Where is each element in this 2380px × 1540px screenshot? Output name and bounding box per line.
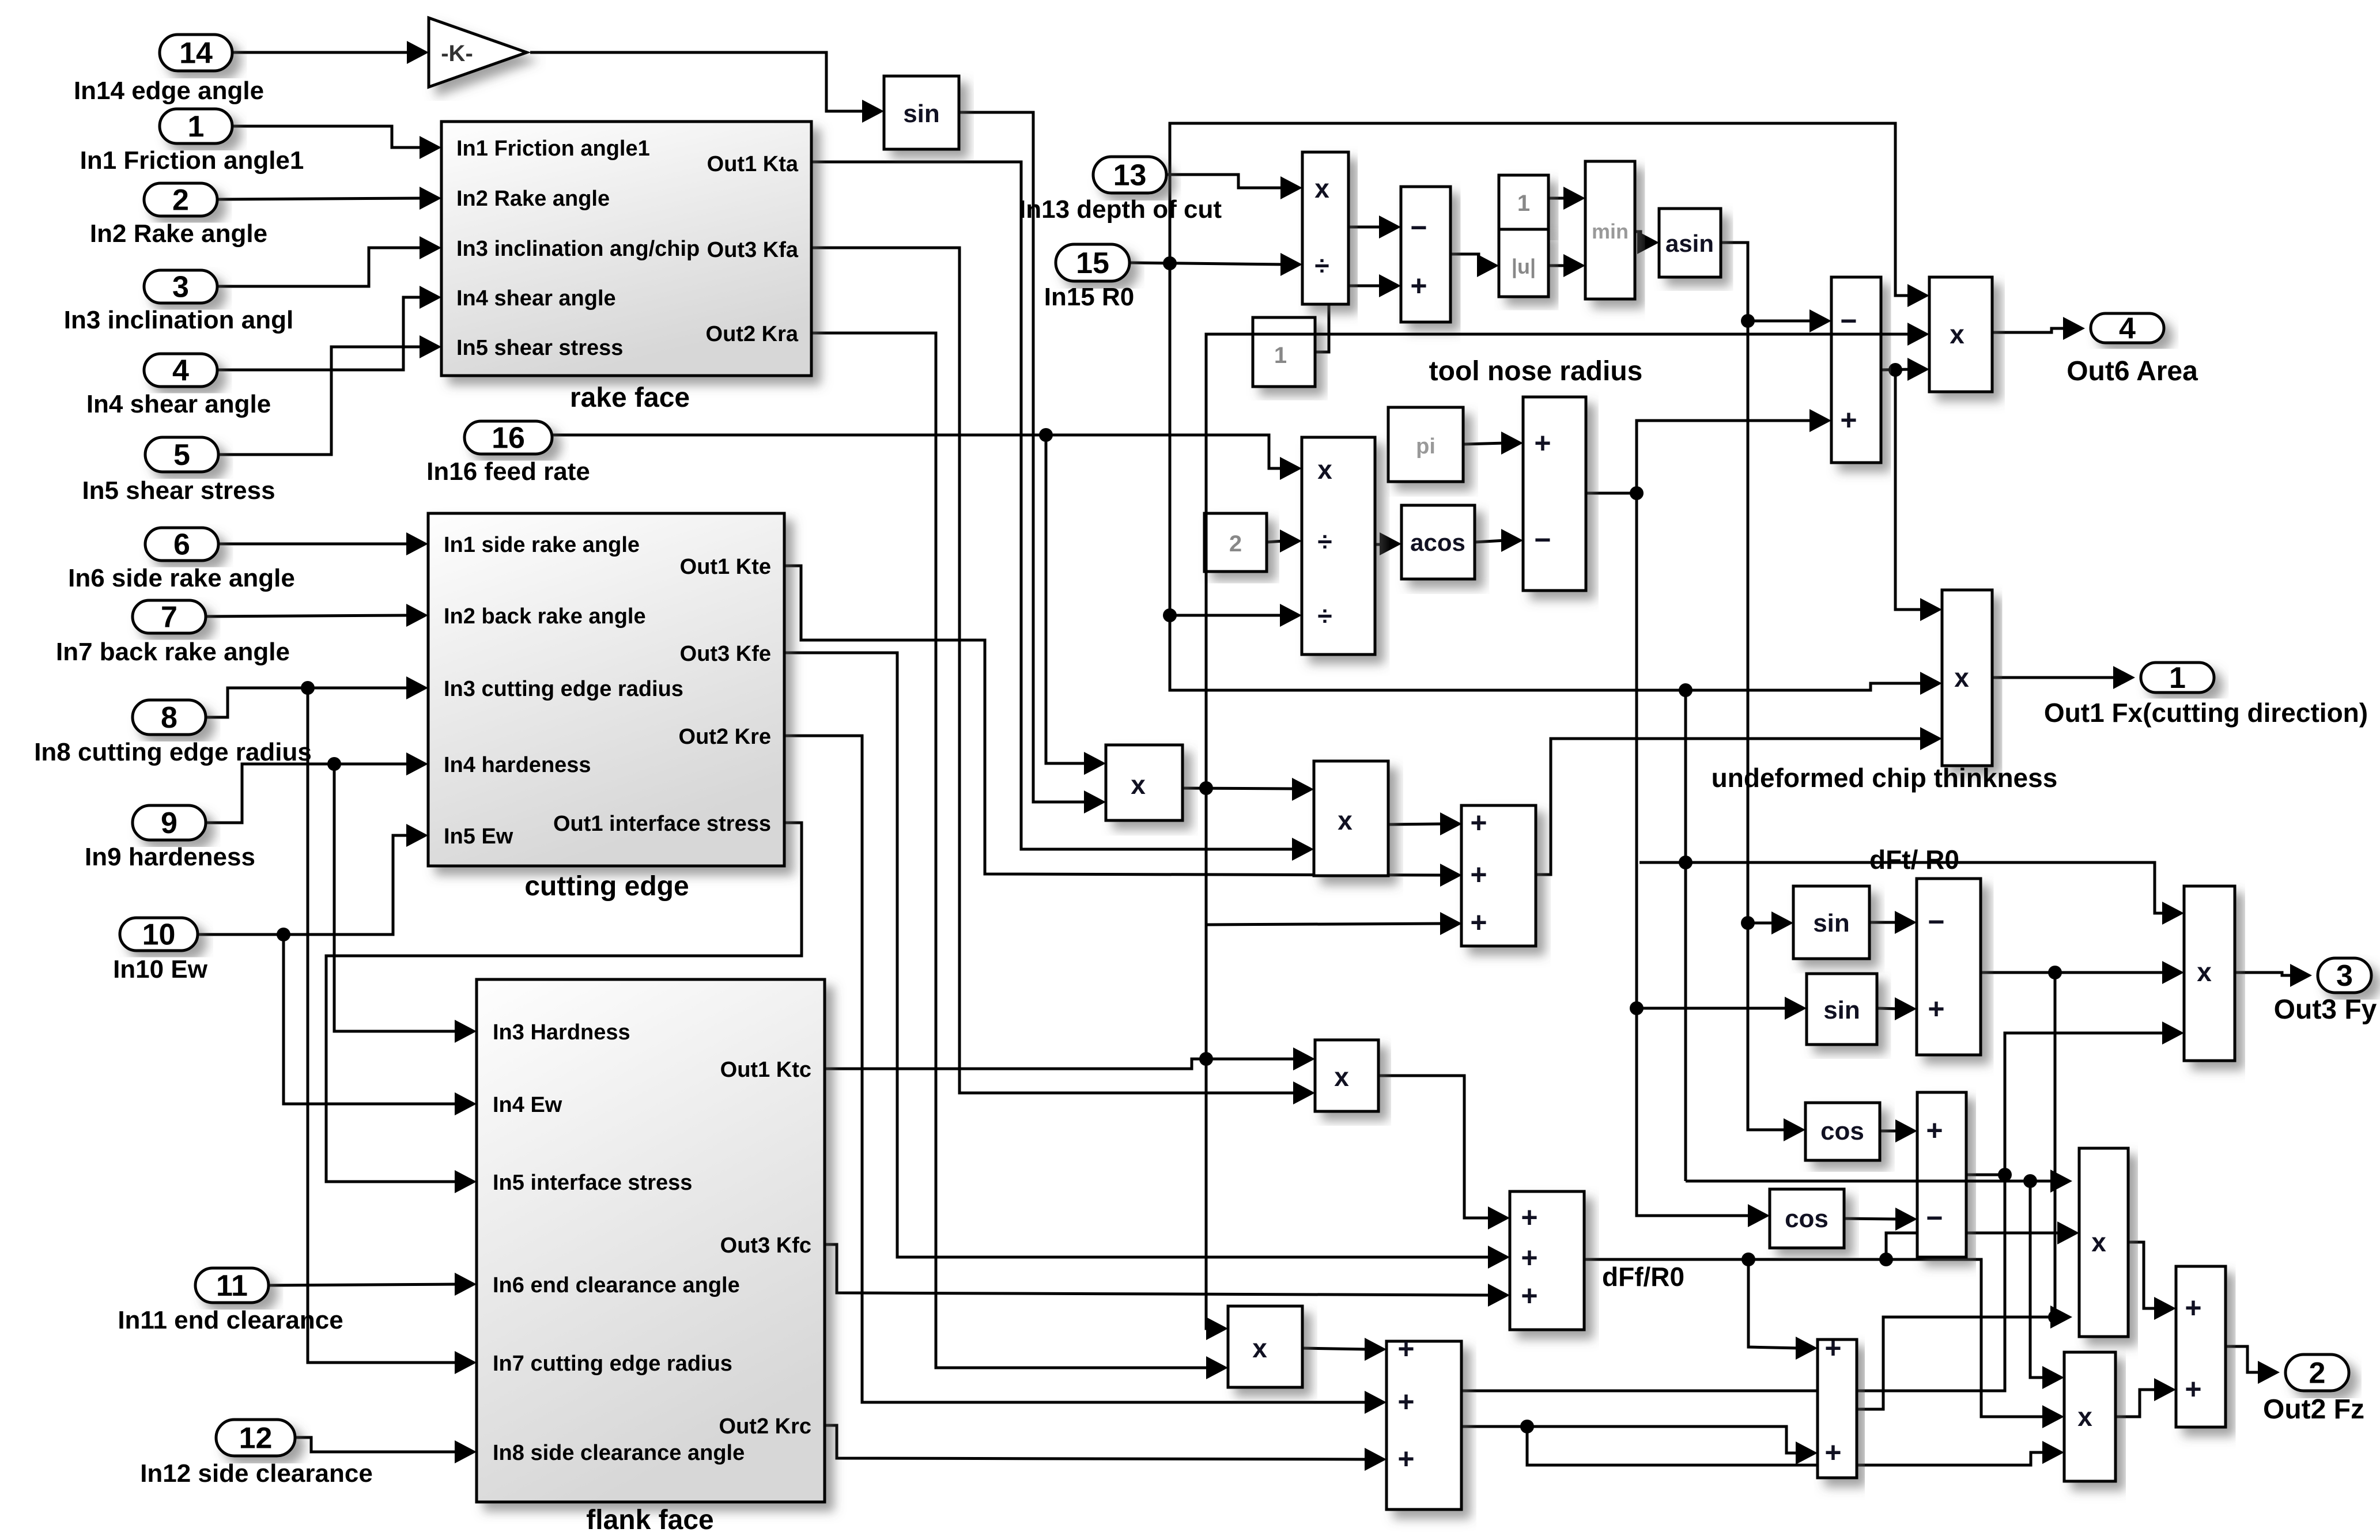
svg-text:x: x — [1131, 770, 1146, 800]
svg-text:3: 3 — [172, 271, 189, 304]
product block prod6 — [2079, 1148, 2128, 1337]
wire product11 to sum10 first input — [1388, 824, 1444, 824]
svg-text:In12 side clearance: In12 side clearance — [140, 1459, 373, 1488]
svg-text:sin: sin — [903, 100, 940, 128]
svg-text:Out1 Ktc: Out1 Ktc — [720, 1058, 811, 1082]
product block prod2 — [1302, 437, 1375, 654]
wire In14 to gain — [232, 51, 410, 54]
wire product8 to sum8 first input — [1378, 1076, 1491, 1218]
wire product9 to sum9 first input — [1302, 1348, 1368, 1349]
svg-text:x: x — [1950, 319, 1965, 349]
svg-text:11: 11 — [216, 1269, 248, 1303]
wire sum9 out to sum7 second input — [1461, 1427, 1799, 1453]
constant 1 lower — [1253, 317, 1315, 387]
svg-text:−: − — [1928, 906, 1944, 938]
svg-text:In1 side rake angle: In1 side rake angle — [444, 533, 640, 557]
svg-text:|u|: |u| — [1512, 255, 1536, 279]
wire cos1 to sum5 plus — [1880, 1130, 1899, 1133]
wire cos2 to sum5 minus — [1844, 1219, 1899, 1219]
trig block sin2 — [1793, 886, 1869, 959]
wire Out3 Kfe to sum8 second input — [784, 653, 1491, 1257]
wire to product6 middle input — [1886, 1233, 2061, 1259]
svg-text:16: 16 — [492, 422, 525, 455]
svg-text:+: + — [1410, 270, 1427, 302]
svg-text:Out2 Kre: Out2 Kre — [679, 725, 771, 749]
wire sum5 output — [1966, 1174, 2005, 1176]
svg-text:x: x — [1252, 1333, 1267, 1363]
wire Out1 Kta to product11 lower input — [811, 162, 1295, 849]
wire In16 feed rate to product2 — [552, 435, 1283, 468]
product block prod5 — [2184, 886, 2235, 1061]
svg-text:cos: cos — [1785, 1205, 1829, 1233]
svg-text:In7 back rake angle: In7 back rake angle — [56, 638, 290, 666]
svg-text:+: + — [1926, 1114, 1943, 1147]
product block prod3 — [1929, 277, 1992, 392]
wire sum10 out up to product4 bottom input — [1536, 739, 1924, 875]
svg-text:15: 15 — [1076, 247, 1109, 280]
junction asin line branch — [1741, 314, 1755, 328]
wire down to cos2 — [1637, 493, 1751, 1216]
svg-text:Out1 Kte: Out1 Kte — [680, 555, 771, 579]
svg-text:1: 1 — [2169, 661, 2186, 695]
wire In15 R0 to product1 — [1129, 263, 1284, 264]
svg-text:cutting edge: cutting edge — [524, 871, 689, 902]
svg-text:dFf/R0: dFf/R0 — [1602, 1262, 1684, 1292]
wire sin3 to sum4 plus — [1877, 1008, 1898, 1009]
sum block sum9 — [1387, 1333, 1461, 1509]
svg-text:Out2 Fz: Out2 Fz — [2263, 1394, 2364, 1425]
wire In6 to cutting edge — [218, 543, 410, 546]
wire sum3 out down to product4 top input — [1895, 370, 1924, 610]
inport 3 — [144, 270, 217, 303]
svg-text:acos: acos — [1410, 529, 1465, 556]
wire Out1 Ktc joins vertical — [825, 1059, 1206, 1069]
svg-text:x: x — [1338, 805, 1353, 835]
wire In5 to rake face — [218, 347, 423, 455]
svg-text:In3 inclination ang/chip: In3 inclination ang/chip — [456, 237, 700, 261]
product block prod1 — [1302, 152, 1348, 304]
wire sum3 to product3 bottom input — [1881, 369, 1911, 370]
svg-text:x: x — [2091, 1227, 2106, 1257]
svg-text:Out3 Kfc: Out3 Kfc — [720, 1233, 811, 1258]
inport 6 — [145, 528, 218, 561]
outport 3 — [2318, 958, 2371, 993]
gain -K- — [429, 18, 527, 87]
svg-text:+: + — [1534, 427, 1551, 459]
svg-text:+: + — [1470, 906, 1487, 939]
min block — [1585, 161, 1635, 299]
subsystem rake face — [441, 122, 811, 376]
sum block sum8 — [1510, 1191, 1584, 1330]
inport 5 — [145, 437, 218, 472]
junction feed rate branch — [1039, 428, 1053, 442]
junction sum3 out branch — [1888, 363, 1902, 377]
wire down branch toward product9 top input — [1206, 788, 1210, 1329]
svg-text:+: + — [1521, 1242, 1537, 1274]
svg-text:÷: ÷ — [1317, 527, 1332, 557]
svg-text:Out3 Fy: Out3 Fy — [2274, 994, 2377, 1025]
svg-text:−: − — [1926, 1202, 1943, 1234]
junction tool nose radius branch — [1630, 486, 1644, 500]
wire R0 to product2 third input — [1170, 614, 1283, 617]
inport 8 — [133, 700, 206, 735]
wire asin line down to sin2 — [1748, 321, 1775, 923]
svg-text:4: 4 — [2119, 312, 2136, 346]
svg-text:In9 hardeness: In9 hardeness — [85, 843, 255, 871]
junction dFf branch up — [1879, 1253, 1893, 1266]
wire R0 up and over to product3 top input — [1170, 123, 1911, 296]
wire branch down toward product6 — [1684, 690, 1687, 1181]
junction sum4 out branch — [2048, 966, 2062, 979]
wire acos to sum2 minus — [1475, 540, 1505, 542]
svg-text:In2 Rake angle: In2 Rake angle — [456, 187, 610, 211]
svg-text:1: 1 — [1517, 191, 1530, 216]
svg-text:+: + — [1470, 807, 1487, 839]
wire sum9 out to product7 bottom input — [1527, 1427, 2046, 1465]
svg-text:−: − — [1534, 524, 1551, 556]
wire R0 down to product4 middle input — [1170, 263, 1924, 690]
wire Out2 Krc to sum9 third input — [825, 1425, 1368, 1459]
wire sum2 output — [1586, 492, 1637, 495]
svg-text:+: + — [1840, 404, 1857, 436]
svg-text:+: + — [1824, 1436, 1841, 1469]
svg-text:In6 end clearance angle: In6 end clearance angle — [493, 1273, 740, 1297]
trig block cos1 — [1805, 1103, 1880, 1160]
subsystem cutting edge — [428, 513, 784, 866]
wire up to sum3 plus — [1637, 421, 1813, 493]
wire product10 out up across to product3 middle input — [1206, 334, 1911, 788]
product block prod4 — [1942, 590, 1992, 766]
svg-text:cos: cos — [1820, 1117, 1864, 1145]
product block prod7 — [2064, 1352, 2115, 1481]
wire sum5 down and left — [1418, 1175, 2005, 1400]
svg-text:In5 shear stress: In5 shear stress — [82, 476, 275, 505]
junction dFf branch down — [1741, 1253, 1755, 1266]
wire min to asin — [1635, 232, 1648, 243]
wire sum5 up to product5 bottom input — [2005, 1033, 2166, 1175]
svg-text:In4 Ew: In4 Ew — [493, 1093, 562, 1117]
trig block acos — [1401, 505, 1475, 579]
wire product1 to sum1 minus — [1348, 226, 1382, 229]
constant pi — [1388, 407, 1463, 482]
svg-text:x: x — [1314, 173, 1329, 203]
svg-text:tool nose radius: tool nose radius — [1429, 356, 1643, 387]
svg-text:In1 Friction angle1: In1 Friction angle1 — [80, 146, 304, 175]
wire product3 to Out4 port — [1992, 328, 2067, 332]
svg-text:+: + — [1397, 1443, 1414, 1475]
svg-text:13: 13 — [1113, 159, 1147, 192]
wire In8 down to flank In7 — [308, 688, 458, 1363]
svg-text:Out2 Krc: Out2 Krc — [719, 1414, 811, 1439]
wire down to cos1 — [1748, 923, 1787, 1130]
wire product10 out to product11 top input — [1183, 788, 1295, 789]
svg-text:Out6 Area: Out6 Area — [2067, 356, 2198, 387]
wire Out1 Kte to sum10 second input — [784, 566, 1444, 875]
wire In2 to rake face — [217, 198, 423, 199]
junction branch to sin3 — [1630, 1001, 1644, 1015]
sum block sum7 — [1818, 1332, 1857, 1478]
svg-text:2: 2 — [1229, 531, 1242, 557]
wire sum4 branch down — [2054, 973, 2057, 1317]
wire line to product6 top input — [1686, 1180, 2054, 1183]
junction In9 branch — [327, 757, 341, 771]
outport 2 — [2285, 1354, 2349, 1391]
svg-text:+: + — [1397, 1333, 1414, 1365]
trig block asin — [1659, 209, 1721, 277]
svg-text:x: x — [2077, 1402, 2092, 1432]
svg-text:In3 inclination angl: In3 inclination angl — [64, 306, 293, 334]
svg-text:In4 shear angle: In4 shear angle — [86, 390, 271, 418]
svg-text:asin: asin — [1665, 230, 1714, 257]
svg-text:+: + — [2185, 1292, 2201, 1324]
inport 4 — [144, 354, 217, 387]
svg-text:In5 interface stress: In5 interface stress — [493, 1171, 692, 1195]
wire constant 1 to min — [1548, 197, 1567, 200]
wire constant 1 to sum1 plus — [1315, 286, 1382, 352]
inport 12 — [216, 1420, 295, 1456]
svg-text:In4 shear angle: In4 shear angle — [456, 286, 616, 311]
svg-text:+: + — [1470, 858, 1487, 891]
svg-text:In3 Hardness: In3 Hardness — [493, 1020, 630, 1045]
svg-text:In8 cutting edge radius: In8 cutting edge radius — [34, 738, 312, 766]
svg-text:+: + — [1521, 1201, 1537, 1233]
svg-text:sin: sin — [1823, 996, 1860, 1024]
junction In8 branch — [301, 681, 315, 695]
svg-text:4: 4 — [172, 354, 189, 388]
wire to sum7 first input — [1748, 1259, 1799, 1348]
svg-text:10: 10 — [142, 918, 176, 952]
svg-text:In5 Ew: In5 Ew — [444, 824, 513, 849]
svg-text:In16 feed rate: In16 feed rate — [426, 457, 590, 486]
wire product7 to sum6 second input — [2115, 1390, 2158, 1417]
svg-text:1: 1 — [188, 110, 205, 143]
wire In10 to cutting edge In5 — [198, 835, 410, 934]
svg-text:Out1 interface stress: Out1 interface stress — [553, 812, 771, 836]
wire product4 to Out1 port — [1992, 676, 2117, 679]
wire feed rate to product10 upper input — [1046, 435, 1087, 763]
sum block sum2 — [1523, 397, 1586, 591]
svg-text:In3 cutting edge radius: In3 cutting edge radius — [444, 677, 683, 701]
junction In10 branch — [277, 928, 290, 941]
outport 1 — [2141, 663, 2214, 693]
wire sin2 to sum4 minus — [1869, 921, 1898, 924]
svg-text:In2 back rake angle: In2 back rake angle — [444, 604, 646, 629]
wire sum8 out dFf/R0 to product7 middle input — [1584, 1259, 2046, 1417]
svg-text:+: + — [1521, 1280, 1537, 1312]
product block prod8 — [1315, 1040, 1378, 1111]
svg-text:In2 Rake angle: In2 Rake angle — [90, 220, 267, 248]
sum block sum1 — [1401, 187, 1450, 322]
svg-text:min: min — [1592, 220, 1629, 243]
trig block sin1 — [884, 76, 959, 149]
inport 9 — [133, 805, 206, 840]
svg-text:−: − — [1410, 211, 1427, 244]
wire In9 down to flank In3 — [334, 764, 458, 1031]
outport 4 — [2091, 313, 2164, 343]
inport 14 — [160, 35, 232, 71]
junction dFt line junction — [1679, 856, 1693, 869]
wire In3 to rake face — [217, 248, 423, 286]
product block prod11 — [1314, 761, 1388, 876]
junction R0 branch to divide — [1163, 608, 1177, 622]
inport 11 — [195, 1268, 269, 1303]
trig block sin3 — [1807, 974, 1877, 1045]
wire Out2 Kra to product9 lower input — [811, 333, 1210, 1368]
trig block cos2 — [1770, 1189, 1844, 1248]
svg-text:In5 shear stress: In5 shear stress — [456, 336, 623, 360]
wire interface stress wrap to flank In5 — [326, 823, 802, 1182]
svg-text:1: 1 — [1274, 343, 1287, 368]
wire branch to sum10 third input — [1206, 924, 1444, 925]
wire sin out to product10 lower input — [959, 112, 1087, 802]
product block prod9 — [1228, 1306, 1302, 1387]
constant 2 — [1204, 513, 1267, 572]
wire In9 to cutting edge In4 — [206, 764, 410, 823]
junction branch to product7 — [2023, 1174, 2037, 1188]
junction branch to sin — [1741, 916, 1755, 930]
svg-text:rake face: rake face — [570, 383, 690, 413]
wire sum6 to Out2 port — [2226, 1346, 2261, 1372]
wire abs to min — [1548, 264, 1567, 267]
svg-text:3: 3 — [2336, 959, 2353, 993]
junction R0 line branch down — [1679, 683, 1693, 697]
svg-text:+: + — [1824, 1332, 1841, 1364]
sum block sum10 — [1461, 805, 1536, 946]
svg-text:−: − — [1840, 305, 1857, 337]
svg-text:dFt/ R0: dFt/ R0 — [1869, 845, 1959, 875]
svg-text:2: 2 — [2309, 1357, 2326, 1390]
wire pi to sum2 plus — [1463, 443, 1505, 444]
wire Out3 Kfc to sum8 third input — [825, 1244, 1491, 1295]
inport 7 — [133, 600, 206, 633]
svg-text:5: 5 — [173, 438, 190, 472]
svg-text:6: 6 — [173, 528, 190, 562]
sum block sum3 — [1831, 277, 1881, 463]
wire In4 to rake face — [217, 297, 423, 370]
svg-text:In10 Ew: In10 Ew — [113, 955, 208, 983]
inport 10 — [120, 918, 198, 951]
wire line across sum5 to product6 top — [1686, 1180, 2054, 1183]
wire In8 to cutting edge In3 — [206, 688, 410, 717]
svg-text:+: + — [1397, 1386, 1414, 1418]
wire to sin3 input — [1637, 1007, 1788, 1010]
wire In12 to flank In8 — [295, 1437, 458, 1452]
svg-text:8: 8 — [161, 701, 177, 735]
svg-text:In13 depth of cut: In13 depth of cut — [1019, 195, 1222, 224]
junction sum9 out branch — [1520, 1420, 1534, 1433]
svg-text:flank face: flank face — [586, 1505, 713, 1535]
svg-text:pi: pi — [1416, 434, 1435, 459]
sum block sum6 — [2176, 1266, 2226, 1427]
svg-text:In1 Friction angle1: In1 Friction angle1 — [456, 137, 650, 161]
wire to product8 top input — [1206, 1058, 1297, 1061]
junction sum5 out branch — [1998, 1168, 2012, 1182]
svg-text:x: x — [1317, 455, 1332, 485]
svg-text:Out2 Kra: Out2 Kra — [706, 322, 799, 346]
svg-text:In11 end clearance: In11 end clearance — [118, 1306, 343, 1334]
inport 13 — [1093, 157, 1166, 193]
inport 2 — [144, 183, 217, 216]
svg-text:In4 hardeness: In4 hardeness — [444, 753, 591, 777]
sum block sum5 — [1917, 1092, 1966, 1257]
inport 1 — [160, 109, 232, 143]
wire constant 2 to product2 divide — [1267, 541, 1283, 542]
svg-text:In6 side rake angle: In6 side rake angle — [68, 564, 295, 592]
svg-text:÷: ÷ — [1317, 601, 1332, 631]
svg-text:undeformed chip thinkness: undeformed chip thinkness — [1712, 763, 2058, 793]
subsystem flank face — [477, 979, 825, 1502]
wire product6 to sum6 first input — [2128, 1242, 2158, 1308]
svg-text:7: 7 — [161, 601, 177, 634]
svg-text:-K-: -K- — [441, 41, 473, 66]
wire product2 to acos — [1375, 543, 1383, 546]
svg-text:Out3 Kfa: Out3 Kfa — [707, 238, 799, 262]
svg-text:12: 12 — [239, 1422, 273, 1455]
constant 1 upper — [1499, 175, 1548, 229]
svg-text:In7 cutting edge radius: In7 cutting edge radius — [493, 1352, 732, 1376]
svg-text:÷: ÷ — [1314, 251, 1329, 281]
inport 15 — [1056, 244, 1129, 281]
svg-text:x: x — [1334, 1062, 1349, 1092]
svg-text:In14 edge angle: In14 edge angle — [74, 77, 264, 105]
wire In1 to rake face — [232, 126, 423, 147]
svg-text:In15 R0: In15 R0 — [1044, 283, 1135, 311]
svg-text:2: 2 — [172, 184, 189, 217]
inport 16 — [464, 421, 552, 454]
svg-text:x: x — [2197, 957, 2212, 987]
wire dFt over R0 to product5 top input — [1639, 862, 2166, 913]
svg-text:+: + — [2185, 1373, 2201, 1405]
svg-text:x: x — [1954, 663, 1969, 693]
abs block — [1499, 229, 1548, 297]
svg-text:Out1 Kta: Out1 Kta — [707, 152, 799, 176]
wire gain to sin — [530, 52, 866, 111]
junction joins product6 bottom line — [2048, 1310, 2062, 1324]
wire sum7 out to product6 bottom input — [1857, 1317, 2054, 1409]
junction R0 branch — [1163, 256, 1177, 270]
wire In11 to flank In6 — [269, 1284, 458, 1285]
wire asin to sum3 minus — [1721, 243, 1813, 321]
wire In7 to cutting edge — [206, 615, 410, 616]
svg-text:Out3 Kfe: Out3 Kfe — [680, 642, 771, 666]
svg-text:sin: sin — [1813, 909, 1850, 937]
wire Out3 Kfa to product8 lower input — [811, 248, 1297, 1093]
svg-text:Out1 Fx(cutting direction): Out1 Fx(cutting direction) — [2044, 698, 2368, 728]
svg-text:14: 14 — [179, 37, 213, 70]
svg-text:In8 side clearance angle: In8 side clearance angle — [493, 1441, 745, 1465]
junction branch to product8 — [1199, 1052, 1213, 1066]
junction product10 out branch — [1199, 781, 1213, 795]
product block prod10 — [1106, 745, 1183, 820]
svg-text:+: + — [1928, 993, 1944, 1025]
wire Out2 Kre to sum9 second input — [784, 736, 1368, 1402]
wire sum4 to product5 middle input — [1981, 971, 2166, 974]
wire In13 to product1 — [1166, 175, 1284, 188]
wire In10 down to flank In4 — [284, 934, 458, 1104]
wire down to product7 top input — [2030, 1181, 2046, 1378]
wire sum1 to abs — [1450, 254, 1480, 266]
wire product5 to Out3 port — [2235, 973, 2294, 975]
svg-text:9: 9 — [161, 807, 177, 840]
sum block sum4 — [1917, 879, 1981, 1055]
